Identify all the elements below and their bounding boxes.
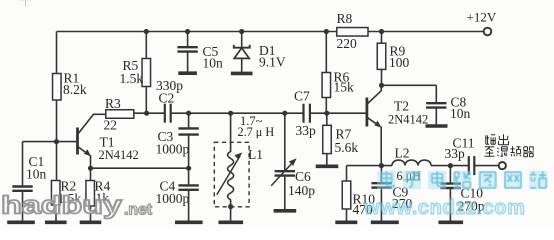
svg-text:10n: 10n <box>26 167 47 182</box>
svg-text:C2: C2 <box>159 91 175 106</box>
svg-text:T2: T2 <box>394 99 409 114</box>
svg-text:.net: .net <box>124 202 152 219</box>
svg-text:2N4142: 2N4142 <box>388 113 428 127</box>
svg-text:ˈˈ|ˈˈ: ˈˈ|ˈˈ <box>19 0 32 8</box>
svg-text:1000p: 1000p <box>156 191 190 206</box>
svg-text:2N4142: 2N4142 <box>99 148 139 162</box>
svg-text:hadbuy: hadbuy <box>1 192 122 220</box>
svg-text:1000p: 1000p <box>156 142 190 157</box>
svg-text:C7: C7 <box>294 89 310 104</box>
svg-text:10n: 10n <box>450 106 471 121</box>
svg-text:140p: 140p <box>288 183 315 198</box>
svg-text:15k: 15k <box>334 80 355 95</box>
svg-text:10n: 10n <box>203 56 224 71</box>
svg-text:2.7 μ H: 2.7 μ H <box>238 125 275 139</box>
svg-text:8.2k: 8.2k <box>63 82 87 97</box>
svg-text:L2: L2 <box>395 146 410 161</box>
svg-text:9.1V: 9.1V <box>259 55 286 70</box>
svg-text:33p: 33p <box>296 123 317 138</box>
svg-text:R3: R3 <box>105 96 121 111</box>
svg-text:22: 22 <box>104 118 118 133</box>
svg-text:1.5k: 1.5k <box>120 71 144 86</box>
svg-text:220: 220 <box>337 36 358 51</box>
svg-text:100: 100 <box>389 55 410 70</box>
svg-text:33p: 33p <box>445 146 466 161</box>
svg-text:R8: R8 <box>337 11 353 26</box>
svg-text:+12V: +12V <box>467 10 497 25</box>
svg-text:5.6k: 5.6k <box>335 140 359 155</box>
svg-text:L1: L1 <box>248 147 263 162</box>
svg-text:www.cndzz.com: www.cndzz.com <box>363 197 526 219</box>
svg-text:C6: C6 <box>295 169 311 184</box>
